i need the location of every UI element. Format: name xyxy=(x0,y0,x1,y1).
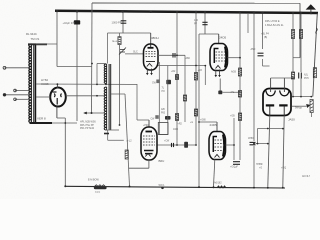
trimmer capacitor xyxy=(119,48,126,55)
V4 heater xyxy=(145,154,150,157)
capacitor 1000pF xyxy=(121,21,127,23)
wire V3 plate stem xyxy=(218,34,220,44)
resistor R2a xyxy=(175,75,178,80)
wire T1 secondary to V1 grid xyxy=(36,96,50,98)
oscillator coil T2 winding lower xyxy=(104,87,106,130)
svg-text:+PL: +PL xyxy=(230,92,235,94)
wire v205 xyxy=(204,12,206,34)
junction xyxy=(239,57,241,59)
capacitor tone xyxy=(233,162,240,165)
wire T2 top xyxy=(97,63,106,65)
resistor Rc xyxy=(238,113,241,121)
junction xyxy=(204,65,206,67)
svg-text:+G80: +G80 xyxy=(200,120,206,122)
AVC arrow line xyxy=(84,112,105,114)
svg-text:38DH: 38DH xyxy=(151,36,159,40)
wire V5 plate stem xyxy=(216,122,218,132)
wire T1 tap 3 xyxy=(5,94,31,96)
svg-text:E+L1: E+L1 xyxy=(113,39,120,43)
tube V2 (frequency changer) xyxy=(144,44,159,70)
wire V3 out right xyxy=(228,57,241,59)
svg-text:+G: +G xyxy=(259,168,262,170)
V6 filaments (bold bars) xyxy=(266,104,288,106)
wire h120 xyxy=(137,119,149,121)
wire T2 tap right xyxy=(111,93,125,95)
svg-text:+GB: +GB xyxy=(230,116,235,118)
oscillator coil T2 winding upper xyxy=(104,64,106,84)
svg-text:+G: +G xyxy=(190,122,193,124)
junction xyxy=(121,10,124,13)
wire v57 xyxy=(56,11,58,67)
capacitor CW-2 xyxy=(156,115,158,119)
wire v137 xyxy=(136,84,138,120)
wire v262 top xyxy=(262,13,264,49)
svg-text:A-L2: A-L2 xyxy=(127,140,133,143)
wire v77 xyxy=(76,11,78,121)
bold mark xyxy=(104,133,109,135)
wire V1 cathode down xyxy=(56,106,58,118)
wire v97 xyxy=(96,64,98,85)
V1 internal electrodes xyxy=(53,92,62,105)
capacitor V3 cathode bypass xyxy=(218,91,222,95)
svg-text:8380: 8380 xyxy=(95,192,101,194)
junction xyxy=(233,144,235,146)
wire V2 heater leg 2 xyxy=(151,69,153,74)
wire h140 xyxy=(108,139,124,141)
wire v301 xyxy=(300,13,302,72)
grid (dashed) xyxy=(143,136,155,145)
right edge drop wire xyxy=(313,13,318,97)
resistor Rb xyxy=(238,91,241,98)
wire V4 cathode left xyxy=(129,167,149,169)
junction xyxy=(176,144,178,146)
wire T1 top to v57 xyxy=(36,43,57,45)
resistor blob R-b xyxy=(165,116,171,120)
wire v185 xyxy=(184,55,186,122)
junction xyxy=(292,96,294,98)
junction xyxy=(282,128,284,130)
svg-text:A2L: A2L xyxy=(304,74,309,77)
grid (dashed) xyxy=(215,140,224,151)
wire h66.5 xyxy=(57,66,92,68)
capacitor right xyxy=(299,73,302,79)
wire V4 cathode down xyxy=(148,160,150,168)
wire V6 cath down 2 xyxy=(283,116,284,188)
fuse/lamp mark xyxy=(316,28,318,34)
wire h54 to V2 grid xyxy=(125,53,144,55)
junction xyxy=(253,11,256,14)
wire V1 grid right xyxy=(66,95,105,97)
resistor R4 xyxy=(183,95,186,101)
resistor on rail (A6/162) xyxy=(217,186,226,188)
terminal circle xyxy=(3,94,6,97)
capacitor 100pF xyxy=(202,22,207,24)
resistor R2b xyxy=(175,114,178,121)
svg-text:A/B: A/B xyxy=(161,108,165,111)
antenna symbol xyxy=(306,4,316,9)
junction xyxy=(195,65,197,67)
junction xyxy=(195,11,198,14)
svg-text:7P88F: 7P88F xyxy=(256,164,263,166)
wire v205 lower xyxy=(204,66,206,85)
tube V4 (detector/first audio) xyxy=(141,127,157,160)
wire v248 stub xyxy=(247,13,249,33)
junction xyxy=(57,83,59,85)
junction xyxy=(267,143,269,145)
wiper arrow xyxy=(306,104,310,108)
capacitor CW-1 xyxy=(157,80,159,84)
wire v254 xyxy=(253,13,255,141)
junction xyxy=(96,84,98,86)
svg-text:AGB: AGB xyxy=(231,71,236,74)
wire v234 xyxy=(233,118,235,160)
heater lead arrow xyxy=(215,75,218,77)
junction xyxy=(300,96,302,98)
svg-text:TM CS: TM CS xyxy=(31,37,40,41)
junction xyxy=(253,143,255,145)
wire V5 cathode to rail xyxy=(214,160,215,187)
wire V2 heater leg 1 xyxy=(146,69,148,74)
capacitor JP80 electrolytic xyxy=(250,142,256,144)
resistor on right drop xyxy=(313,68,316,78)
grid (dashed) xyxy=(146,51,157,56)
junction xyxy=(176,11,179,14)
junction xyxy=(76,10,79,13)
wire V6 plate stem 1 xyxy=(270,78,272,92)
svg-text:B6U: B6U xyxy=(159,159,165,163)
svg-text:DPL HY90 E: DPL HY90 E xyxy=(265,19,280,23)
junction xyxy=(149,10,152,13)
HT supply rail (bold top) xyxy=(55,11,318,13)
wire V2 screen right xyxy=(158,54,185,56)
wire h57.7 xyxy=(293,57,300,59)
resistor right-2 xyxy=(291,72,294,79)
heater lead arrow xyxy=(218,75,221,77)
wire T2 bottom stem xyxy=(107,130,109,140)
wire v159 cathode chain xyxy=(158,62,160,135)
tube V1 (local oscillator triode) xyxy=(50,88,66,107)
wire V6 cath down 1 xyxy=(268,116,270,187)
resistor blob R-a xyxy=(166,80,171,85)
resistor on v125 xyxy=(125,150,128,159)
svg-text:JA50: JA50 xyxy=(288,118,295,122)
V3 plate bracket xyxy=(214,49,218,64)
wire h145 coupling xyxy=(157,144,196,146)
wire T1 tap 4 xyxy=(15,98,30,100)
aerial transformer T1 core xyxy=(33,44,35,123)
wire v293 xyxy=(292,13,294,72)
junction xyxy=(310,12,313,15)
wire v239 xyxy=(239,13,241,161)
T1 bottom (bold) xyxy=(30,122,53,124)
junction xyxy=(195,144,197,146)
svg-text:PO5: PO5 xyxy=(304,78,309,80)
junction xyxy=(91,63,93,65)
wire h33 to V2 plate xyxy=(108,32,151,34)
svg-text:RL 944C: RL 944C xyxy=(26,32,37,36)
V3 heater xyxy=(216,66,221,69)
wire v196 xyxy=(195,12,197,145)
wire v107 to osc coil xyxy=(107,33,109,64)
capacitor A5D xyxy=(258,53,264,56)
wire h128 filament tie xyxy=(258,128,284,130)
wire antenna line drop right xyxy=(299,3,301,58)
svg-text:+OQµF: +OQµF xyxy=(230,166,238,169)
svg-text:E-M BOW: E-M BOW xyxy=(88,179,100,182)
capacitor screen bypass xyxy=(173,53,175,58)
wire h122 xyxy=(199,121,217,123)
V5 plate bracket xyxy=(213,137,217,153)
wire V2 plate stem xyxy=(150,33,152,44)
junction xyxy=(257,143,259,145)
resistor right-3 xyxy=(299,30,302,39)
svg-text:24D5: 24D5 xyxy=(219,36,227,40)
wire T1 tap 2 xyxy=(15,90,30,92)
terminal circle xyxy=(14,98,17,101)
heater lead arrow xyxy=(146,73,149,75)
wire V3 cathode down xyxy=(219,79,221,91)
svg-text:24D5: 24D5 xyxy=(210,123,218,127)
oscillator coil T2 core xyxy=(108,64,110,130)
resistor right-1 xyxy=(291,30,294,39)
capacitor coupling CW xyxy=(172,143,174,147)
junction xyxy=(129,186,131,188)
wire V6 to volume pot xyxy=(292,105,307,107)
svg-text:PO: PO xyxy=(162,91,166,93)
wire v199 xyxy=(198,34,200,187)
wire v177 xyxy=(176,12,178,145)
wire h66 xyxy=(263,65,270,67)
V2 heater xyxy=(147,64,152,67)
wire v254 low xyxy=(253,146,255,187)
wire v119 to coil bottom xyxy=(119,45,121,126)
svg-text:+CW: +CW xyxy=(164,141,170,143)
junction xyxy=(282,187,284,189)
wire v119 join xyxy=(119,33,121,37)
tube V5 (output pentode) xyxy=(209,132,226,160)
junction xyxy=(96,95,98,97)
heater lead arrow xyxy=(150,73,153,75)
junction xyxy=(105,84,107,86)
junction xyxy=(267,128,269,130)
wire V4 plate stem xyxy=(148,120,150,127)
svg-text:WN 1: WN 1 xyxy=(159,184,166,187)
wire pot bottom xyxy=(311,113,313,118)
svg-text:+P00: +P00 xyxy=(143,125,149,127)
svg-text:A5D: A5D xyxy=(251,48,256,51)
svg-text:PRL PP SLW: PRL PP SLW xyxy=(80,127,95,130)
junction xyxy=(310,96,312,98)
svg-text:+02µF 370: +02µF 370 xyxy=(63,21,76,25)
wire v257 stub xyxy=(257,129,259,144)
wire v168 xyxy=(167,66,169,135)
junction v92-arrow xyxy=(91,112,93,114)
wire T2 bottom xyxy=(105,129,119,131)
wire V6 plate stem 2 xyxy=(283,78,285,92)
svg-text:+R2: +R2 xyxy=(178,124,183,126)
junction WN1 xyxy=(161,187,164,190)
wire h118 xyxy=(57,117,65,119)
wire v65 left return xyxy=(64,118,66,186)
wire cap to v268 xyxy=(256,143,268,145)
V6 filament leads inside xyxy=(270,105,284,115)
wire v125 (slanted return) xyxy=(125,94,130,187)
junction xyxy=(292,77,294,79)
wire antenna line (top) xyxy=(92,2,300,4)
V4 cathode xyxy=(144,150,154,152)
resistor box (AF grid leak) xyxy=(158,123,168,135)
svg-text:9W-pp: 9W-pp xyxy=(295,107,303,110)
resistor R3b xyxy=(194,109,197,116)
resistor R-osc grid xyxy=(118,37,121,45)
chassis/return rail (bottom) xyxy=(65,186,285,188)
wire v262 xyxy=(262,59,264,66)
svg-text:1000 PF: 1000 PF xyxy=(112,20,122,24)
junction xyxy=(56,10,59,13)
junction xyxy=(198,186,200,188)
junction xyxy=(119,124,121,126)
on-off switch S1 (dark blob below rail) xyxy=(94,186,107,189)
svg-text:J400: J400 xyxy=(173,129,179,131)
svg-text:JP80: JP80 xyxy=(248,137,254,140)
junction xyxy=(198,121,200,123)
wire V1 top stem xyxy=(56,84,58,88)
wire V3 heater leg 1 xyxy=(215,70,217,76)
wire V5 out right xyxy=(226,144,235,146)
svg-text:+R2: +R2 xyxy=(171,71,176,73)
V2 cathode xyxy=(146,61,155,63)
wire v92 (ant coupling) xyxy=(91,3,94,113)
resistor decoupling Ra xyxy=(238,68,241,76)
wire h78 xyxy=(271,77,293,79)
svg-text:+R3: +R3 xyxy=(198,70,203,72)
resistor R3 xyxy=(194,73,197,81)
T1 top bar xyxy=(28,43,47,45)
V6 anode plates (hooks) xyxy=(266,91,289,96)
svg-text:A6 FIL7: A6 FIL7 xyxy=(302,175,311,178)
junction xyxy=(239,11,242,14)
svg-text:PF: PF xyxy=(194,23,198,26)
potentiometer track xyxy=(310,100,313,113)
wire h84 T1 through osc coil tap xyxy=(36,83,137,85)
tube V3 (IF amplifier) xyxy=(210,44,228,71)
terminal dot xyxy=(3,94,6,97)
svg-text:SLC: SLC xyxy=(133,51,138,54)
svg-text:A6/162: A6/162 xyxy=(214,182,222,185)
V4 anode plate xyxy=(146,131,153,133)
wire h34 xyxy=(199,33,219,35)
wire h96.6 xyxy=(293,96,311,98)
wire V3 heater leg 2 xyxy=(219,70,221,76)
svg-text:+OQ: +OQ xyxy=(281,167,286,170)
junction xyxy=(213,186,215,188)
junction xyxy=(253,187,255,189)
terminal circle xyxy=(3,66,6,69)
grid (dashed) xyxy=(216,52,226,61)
junction xyxy=(300,12,303,15)
junction xyxy=(204,11,207,14)
wire v123 top xyxy=(122,12,124,33)
svg-text:A6D: A6D xyxy=(186,57,191,60)
junction xyxy=(64,185,66,187)
wire h123 xyxy=(52,122,77,124)
svg-text:VER 8: VER 8 xyxy=(37,117,46,121)
wire V2 anode out xyxy=(158,65,205,67)
V5 heater xyxy=(215,155,220,158)
junction xyxy=(261,11,264,14)
junction xyxy=(267,187,269,189)
terminal circle xyxy=(14,89,17,92)
junction xyxy=(64,122,66,124)
wire T1 tap top xyxy=(5,67,31,69)
wire v293 low xyxy=(292,79,294,97)
wire h134.5 xyxy=(159,134,168,136)
svg-text:(B): (B) xyxy=(264,36,267,39)
capacitor 0.05uF line filter (solid) xyxy=(74,20,80,24)
wire v301 low xyxy=(300,79,302,97)
svg-text:1 BAA 52 AN 2L: 1 BAA 52 AN 2L xyxy=(265,23,284,27)
V2 anode plate xyxy=(148,47,154,49)
aerial transformer T1 primary winding xyxy=(29,44,32,123)
wire h92 to AVC divider xyxy=(223,91,241,93)
junction xyxy=(176,54,178,56)
junction xyxy=(292,12,295,15)
tube V6 (full-wave rectifier) xyxy=(263,89,291,116)
capacitor blob on h145 xyxy=(184,142,188,148)
svg-text:P00: P00 xyxy=(161,112,166,114)
